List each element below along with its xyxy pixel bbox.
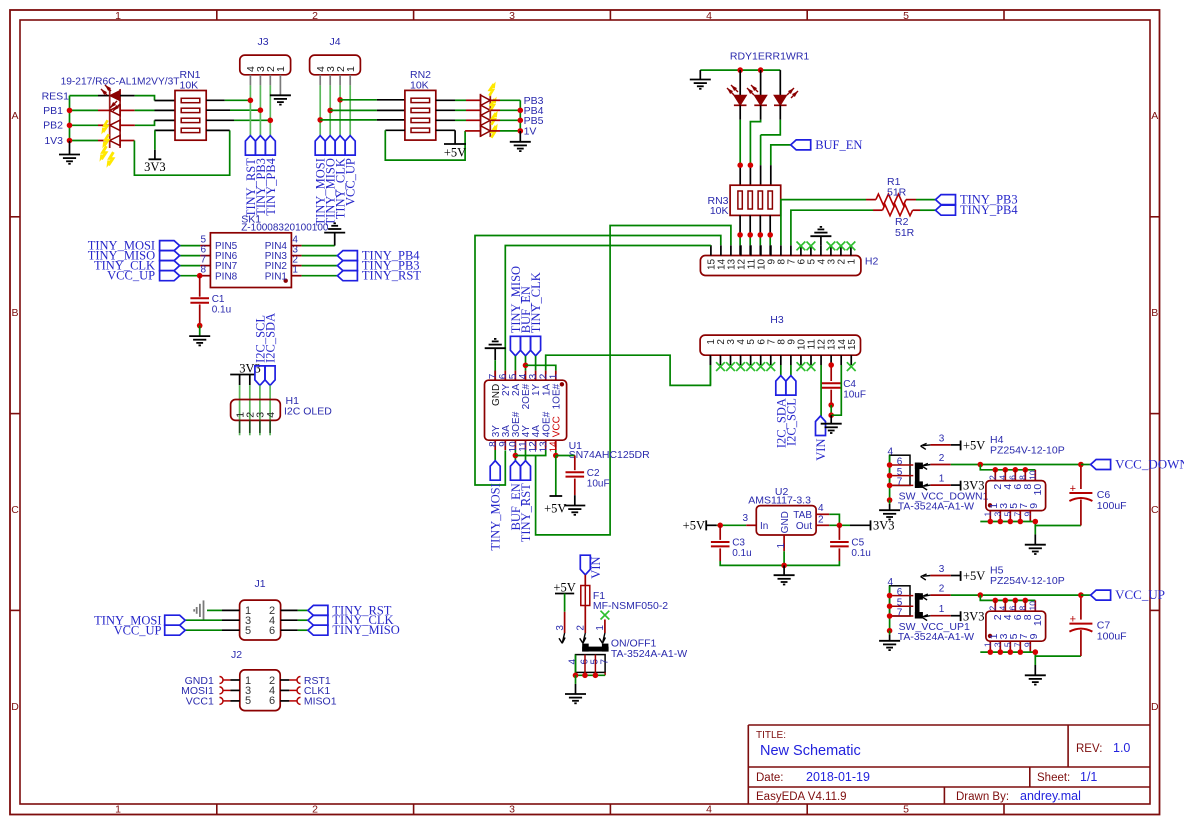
svg-text:10: 10 — [1032, 614, 1044, 626]
svg-text:9: 9 — [1028, 503, 1040, 509]
ground below 1V3 bus — [69, 141, 71, 155]
switch SW_VCC_DOWN1 pin2 wire — [922, 463, 928, 466]
wire RN1 row1 to J3 pin4 — [206, 99, 225, 101]
ground below C4 — [830, 415, 832, 424]
H4 bottom stubs — [989, 511, 991, 522]
H1 flag wires — [259, 385, 261, 420]
svg-text:5: 5 — [245, 695, 251, 707]
net flag BUF_EN above U1 — [521, 336, 531, 356]
svg-text:1: 1 — [982, 512, 992, 517]
power flag +5V below U1 — [555, 456, 557, 497]
svg-text:3V3: 3V3 — [873, 518, 895, 532]
svg-text:VCC_UP: VCC_UP — [344, 158, 358, 206]
svg-text:4: 4 — [706, 10, 712, 22]
svg-text:H3: H3 — [770, 314, 784, 326]
svg-text:andrey.mal: andrey.mal — [1020, 789, 1081, 803]
svg-text:3: 3 — [992, 642, 1002, 647]
net flag TINY_CLK under J4 — [335, 136, 345, 156]
svg-text:19-217/R6C-AL1M2VY/3T: 19-217/R6C-AL1M2VY/3T — [61, 77, 180, 88]
LED array D1 left rail — [109, 89, 111, 148]
LED D2a triangle PB3 — [481, 95, 491, 105]
svg-text:C1: C1 — [212, 294, 225, 305]
ground at U1 pin7 — [494, 348, 496, 360]
svg-text:H2: H2 — [865, 256, 879, 268]
wire RES1 row to LED1 — [70, 95, 99, 97]
svg-text:10K: 10K — [410, 80, 429, 92]
svg-text:1V3: 1V3 — [44, 135, 63, 147]
switch SW_VCC_UP1 body — [890, 586, 910, 616]
wire U1 pin8 to flag — [494, 450, 496, 461]
H3 pin12 wire to VIN — [820, 365, 822, 416]
ground below H5 — [1034, 656, 1036, 665]
svg-text:1: 1 — [345, 66, 357, 72]
row tick marks left/right — [10, 216, 20, 218]
wire J4 pin2 to RN2 row1 — [340, 99, 377, 101]
H3 pin14 wire to ground join — [831, 365, 841, 415]
power flag +5V at RN2 — [454, 130, 456, 144]
junction dots above RN3 — [737, 162, 743, 168]
svg-text:+5V: +5V — [444, 146, 466, 160]
svg-text:3: 3 — [992, 512, 1002, 517]
net flag TINY_CLK at SK1 — [160, 261, 180, 271]
svg-text:5: 5 — [1002, 512, 1012, 517]
svg-text:51R: 51R — [887, 187, 907, 199]
svg-text:1V: 1V — [524, 126, 537, 138]
svg-text:4: 4 — [706, 804, 712, 816]
U1 bottom pin stubs — [494, 440, 496, 450]
svg-text:8: 8 — [1017, 606, 1027, 611]
svg-text:5: 5 — [903, 10, 909, 22]
switch SW_VCC_DOWN1 left rail to ground — [889, 455, 891, 500]
H3 X marks — [716, 362, 725, 371]
svg-text:2: 2 — [312, 10, 318, 22]
title block outline — [748, 725, 1150, 804]
svg-text:1: 1 — [115, 804, 121, 816]
U1 top pin stubs — [494, 371, 496, 381]
switch SW_VCC_UP1 pin1 3V3 — [922, 615, 928, 618]
svg-text:100uF: 100uF — [1097, 500, 1127, 512]
resistor R1 — [876, 194, 906, 205]
svg-text:10: 10 — [1032, 484, 1044, 496]
svg-text:0.1u: 0.1u — [732, 548, 751, 559]
junction dots below RN3 — [737, 232, 743, 238]
wire R2 to flag — [913, 209, 920, 211]
header H5 top stubs — [994, 600, 996, 611]
switch ON/OFF1 body — [576, 655, 606, 673]
svg-text:RES1: RES1 — [42, 90, 70, 102]
J1 right wires — [281, 609, 298, 611]
svg-text:1: 1 — [939, 604, 945, 615]
svg-text:B: B — [1151, 307, 1158, 319]
wire U1 pin4 TINY_CLK with dot — [525, 356, 527, 371]
svg-text:2: 2 — [818, 515, 824, 526]
ground below ON/OFF1 — [575, 675, 577, 684]
svg-text:10uF: 10uF — [843, 390, 866, 401]
wire U1 pin4 tie to pin1 — [526, 365, 556, 370]
svg-text:VCC: VCC — [551, 416, 562, 437]
switch SW_VCC_UP1 pin3 +5V — [921, 574, 927, 577]
LED LED3 WR — [779, 70, 781, 95]
header H4 top stubs — [994, 470, 996, 481]
net flag TINY_CLK above U1 — [531, 336, 541, 356]
wire 1V3 row to LED4 — [70, 140, 99, 142]
svg-text:D: D — [1151, 701, 1159, 713]
LED D1c triangle PB2 — [110, 120, 120, 130]
U2 pin1 GND wire — [783, 535, 785, 551]
net flag TINY_PB4 — [337, 251, 357, 261]
svg-text:VCC_UP: VCC_UP — [114, 624, 162, 638]
header H4 top rail — [980, 464, 1081, 466]
svg-text:Out: Out — [796, 521, 812, 532]
wire H2 pin8 up to R1 — [781, 200, 866, 246]
svg-text:B: B — [11, 307, 18, 319]
svg-text:RDY1ERR1WR1: RDY1ERR1WR1 — [730, 51, 810, 63]
wire RN1 row2 to J3 pin3 — [206, 109, 230, 111]
net flag TINY_PB4 under J3 — [265, 136, 275, 156]
net flag VCC_UP at SK1 — [160, 271, 180, 281]
wire RN2 row1 to LED2 array — [436, 99, 455, 101]
svg-text:3: 3 — [742, 513, 748, 524]
wire LED3 to RN1 jog — [120, 124, 135, 126]
H2 pin stubs — [710, 245, 712, 255]
net flag I2C_SDA at H3 — [776, 376, 786, 396]
H3 pin8 flag wire — [780, 365, 782, 376]
ground below H4 — [1034, 526, 1036, 535]
net flag TINY_MOSI at SK1 — [160, 241, 180, 251]
svg-text:GND: GND — [780, 511, 791, 533]
svg-text:4: 4 — [818, 503, 824, 514]
wire PB2 row to LED3 — [70, 124, 99, 126]
net flag TINY_PB3 — [337, 261, 357, 271]
svg-text:A: A — [11, 110, 18, 122]
net flag TINY_MISO above U1 — [510, 336, 520, 356]
capacitor C5 — [838, 525, 840, 540]
svg-text:TITLE:: TITLE: — [756, 730, 786, 741]
svg-text:TA-3524A-A1-W: TA-3524A-A1-W — [898, 501, 974, 513]
SK1 left pin wires — [180, 245, 201, 247]
SK1 right wires to flags — [291, 255, 301, 257]
svg-text:4: 4 — [265, 412, 277, 418]
svg-text:1: 1 — [982, 642, 992, 647]
svg-text:8: 8 — [1017, 475, 1027, 480]
net flag TINY_RST under J3 — [245, 136, 255, 156]
wire U1 pin2 to H3 pin1 — [546, 355, 711, 385]
svg-text:5: 5 — [903, 804, 909, 816]
svg-text:1OE#: 1OE# — [551, 383, 562, 409]
ground below U2 — [783, 565, 785, 575]
svg-text:A: A — [1151, 110, 1158, 122]
U1 pin1 marker — [560, 382, 564, 386]
svg-text:J4: J4 — [329, 36, 340, 48]
junction dots PB4 PB5 1V — [518, 108, 524, 114]
net flag I2C_SCL at H1 — [255, 366, 265, 386]
svg-text:C3: C3 — [732, 538, 745, 549]
U2 pin4 TAB wire — [816, 513, 829, 515]
svg-text:4: 4 — [997, 606, 1007, 611]
power flag 3V3 at RN1 — [154, 130, 156, 149]
svg-text:D: D — [11, 701, 19, 713]
J3 junction dots — [248, 98, 254, 104]
svg-text:1: 1 — [939, 474, 945, 485]
svg-text:3: 3 — [939, 564, 945, 575]
svg-text:4: 4 — [997, 475, 1007, 480]
svg-text:PIN8: PIN8 — [215, 271, 238, 282]
svg-text:REV:: REV: — [1076, 743, 1102, 755]
resistor network RN3 box — [730, 185, 781, 215]
svg-text:5: 5 — [245, 625, 251, 637]
capacitor C7 — [1080, 595, 1082, 620]
svg-text:TINY_RST: TINY_RST — [519, 483, 533, 542]
svg-text:1: 1 — [776, 543, 787, 549]
svg-text:4: 4 — [888, 577, 894, 588]
J3 pin2 wire — [269, 75, 271, 86]
svg-text:2: 2 — [939, 453, 945, 464]
net flag TINY_MISO under J4 — [325, 136, 335, 156]
LED array D1 right rail — [119, 89, 121, 148]
switch ON/OFF1 actuator bar — [582, 647, 608, 652]
wire H2 pin7 up to R2 — [791, 210, 873, 245]
ground below 1V — [519, 131, 521, 142]
svg-text:PB1: PB1 — [43, 105, 63, 117]
wire RN2 row2 to LED2 array — [436, 109, 455, 111]
net flag TINY_PB4 right — [936, 205, 956, 215]
right vertical bus PB3-1V — [519, 100, 521, 131]
svg-text:4: 4 — [567, 659, 578, 665]
svg-text:TINY_PB4: TINY_PB4 — [960, 203, 1018, 217]
svg-text:1/1: 1/1 — [1080, 770, 1097, 784]
svg-text:0.1u: 0.1u — [212, 305, 231, 316]
svg-text:Z-10008320100100: Z-10008320100100 — [241, 223, 329, 234]
wire H2 pin14 long route to U1 pin9 — [475, 236, 721, 486]
SK1 pin4 wire to ground — [291, 245, 301, 247]
IC U1 box — [485, 380, 567, 440]
H4 bottom rail — [980, 521, 1035, 523]
svg-text:SN74AHC125DR: SN74AHC125DR — [569, 449, 651, 461]
RN3 resistors vertical — [738, 191, 742, 209]
switch SW_VCC_UP1 actuator bar — [915, 593, 920, 618]
SK1 pin1 marker dot — [284, 279, 288, 283]
LED D1d triangle 1V3 — [110, 135, 120, 145]
svg-text:TINY_CLK: TINY_CLK — [529, 272, 543, 333]
U2 pin3 stub — [746, 524, 756, 526]
wire J4 pin4 to RN2 row3 — [320, 119, 377, 121]
RN1 resistors — [181, 98, 200, 102]
resistor network RN1 box — [175, 91, 206, 141]
svg-text:+5V: +5V — [544, 502, 566, 516]
J1 pin3 wire to TINY_MOSI — [222, 619, 240, 621]
J3 pin1 wire to ground — [279, 75, 281, 96]
junction dot C5 — [837, 523, 843, 529]
svg-text:7: 7 — [599, 659, 610, 665]
LED D1a filled triangle RES1 — [110, 90, 120, 100]
svg-text:2: 2 — [939, 584, 945, 595]
net flag I2C_SCL at H3 — [786, 376, 796, 396]
capacitor C3 — [719, 525, 721, 540]
wire LED1 to RN3 col1 — [739, 105, 741, 120]
svg-text:EasyEDA V4.11.9: EasyEDA V4.11.9 — [756, 791, 847, 803]
svg-text:MISO1: MISO1 — [304, 696, 337, 708]
svg-text:3: 3 — [939, 434, 945, 445]
switch SW_VCC_UP1 pin2 wire — [922, 594, 928, 597]
svg-text:3: 3 — [555, 625, 566, 631]
svg-text:C2: C2 — [587, 468, 600, 479]
svg-text:Sheet:: Sheet: — [1037, 772, 1070, 784]
resistor R2 — [883, 205, 913, 216]
junction dot U2 ground rail — [781, 563, 787, 569]
net flag VIN at H3 — [816, 416, 826, 436]
svg-text:6: 6 — [269, 625, 275, 637]
net flag TINY_MOSI at J1 — [165, 615, 186, 625]
svg-text:1.0: 1.0 — [1113, 741, 1130, 755]
junction dot 1V3 — [67, 138, 73, 144]
RN2 pin8 to +5V — [436, 129, 455, 131]
wire U1 pin11 to flag — [525, 450, 527, 461]
svg-text:C: C — [1151, 504, 1159, 516]
svg-text:TA-3524A-A1-W: TA-3524A-A1-W — [611, 648, 687, 660]
svg-text:2: 2 — [987, 475, 997, 480]
J3 pin3 wire — [259, 75, 261, 86]
H3 pin1 wire down-left — [709, 365, 711, 385]
wire F1 to switch pin2 — [584, 606, 586, 634]
svg-text:Date:: Date: — [756, 772, 784, 784]
junction dot below C1 — [197, 323, 203, 329]
ground below C1 — [199, 326, 201, 337]
svg-text:15: 15 — [847, 339, 858, 351]
capacitor C1 — [199, 276, 201, 297]
svg-text:AMS1117-3.3: AMS1117-3.3 — [748, 495, 811, 507]
svg-text:1: 1 — [548, 373, 559, 379]
wire LED1 to RN1 jog — [120, 95, 135, 97]
wire R1 to flag — [906, 199, 916, 201]
wire RN1 row3 to J3 pin2 — [206, 119, 234, 121]
svg-text:100uF: 100uF — [1097, 631, 1127, 643]
LED D2d triangle 1V — [481, 126, 491, 136]
svg-text:TINY_MOSI: TINY_MOSI — [489, 483, 503, 550]
wire RN2 row3 to LED2 array — [436, 119, 455, 121]
junction dot PB1 — [67, 108, 73, 114]
wire LED2 to RN3 col2 — [760, 105, 762, 120]
wire H2 pin15 long route to U1 pin6 — [710, 244, 712, 246]
net flag TINY_RST at J1 — [308, 605, 328, 615]
svg-text:3: 3 — [509, 804, 515, 816]
svg-text:2: 2 — [575, 625, 586, 631]
net flag VIN at F1 — [580, 555, 590, 575]
net flag VCC_UP — [1081, 594, 1091, 596]
net flag TINY_RST below U1 — [521, 461, 531, 481]
net flag BUF_EN top right — [771, 145, 791, 165]
resistor network RN2 box — [405, 90, 436, 140]
svg-text:C5: C5 — [851, 538, 864, 549]
svg-text:9: 9 — [1022, 642, 1032, 647]
ground below C2 — [564, 505, 585, 507]
ON/OFF1 bottom rail — [576, 674, 606, 676]
svg-text:9: 9 — [1022, 512, 1032, 517]
svg-text:2018-01-19: 2018-01-19 — [806, 770, 870, 784]
svg-text:TINY_MISO: TINY_MISO — [332, 623, 399, 637]
LED array D2 right rail — [489, 94, 491, 137]
svg-text:J2: J2 — [231, 649, 242, 661]
svg-text:C4: C4 — [843, 379, 856, 390]
net flag VCC_UP at J1 — [165, 625, 186, 635]
svg-text:2: 2 — [312, 804, 318, 816]
svg-text:VCC_UP: VCC_UP — [1115, 587, 1165, 602]
svg-text:Drawn By:: Drawn By: — [956, 791, 1009, 803]
H5 bottom stubs — [989, 641, 991, 652]
wire U1 pin10 BUF_EN — [514, 450, 516, 461]
svg-text:7: 7 — [1012, 512, 1022, 517]
junction dot PB2 — [67, 123, 73, 129]
switch SW_VCC_DOWN1 actuator bar — [915, 463, 920, 488]
svg-text:1: 1 — [275, 66, 287, 72]
svg-text:1: 1 — [115, 10, 121, 22]
wire LED4 loop to RN1 right pin4 — [120, 140, 134, 142]
svg-text:2: 2 — [987, 606, 997, 611]
H1 bottom stubs — [239, 420, 241, 433]
svg-text:TAB: TAB — [793, 510, 812, 521]
LED D1 emission arrows dark red — [105, 85, 111, 91]
net flag TINY_RST — [337, 271, 357, 281]
connector SK1 box — [210, 233, 291, 288]
connector H5 box — [986, 611, 1046, 641]
wire LED2 to RN1 — [120, 109, 135, 111]
svg-text:I2C_SDA: I2C_SDA — [264, 313, 278, 363]
svg-text:VCC1: VCC1 — [186, 696, 214, 708]
svg-text:BUF_EN: BUF_EN — [815, 138, 862, 152]
svg-text:MF-NSMF050-2: MF-NSMF050-2 — [593, 600, 668, 612]
capacitor C2 — [556, 455, 575, 457]
svg-text:7: 7 — [1012, 642, 1022, 647]
svg-text:C: C — [11, 504, 19, 516]
net flag TINY_MOSI under J4 — [315, 136, 325, 156]
svg-text:1: 1 — [847, 258, 858, 264]
ground at RDY left — [699, 70, 701, 79]
net flag BUF_EN below U1 — [510, 461, 520, 481]
svg-text:10: 10 — [1027, 470, 1037, 480]
net flag TINY_MISO at SK1 — [160, 251, 180, 261]
svg-text:5: 5 — [1002, 642, 1012, 647]
IC U2 box — [756, 506, 816, 535]
J4 junction dots — [337, 97, 343, 103]
connector J1 box — [240, 600, 281, 640]
LED LED1 RDY — [739, 70, 741, 95]
switch SW_VCC_DOWN1 pin3 +5V — [921, 443, 927, 446]
LED LED2 ERR — [760, 70, 762, 95]
svg-text:14: 14 — [548, 441, 559, 453]
LED D2b triangle PB4 — [481, 105, 491, 115]
svg-text:TA-3524A-A1-W: TA-3524A-A1-W — [898, 631, 974, 643]
svg-text:6: 6 — [1007, 475, 1017, 480]
svg-text:10uF: 10uF — [587, 478, 610, 489]
svg-text:PB2: PB2 — [43, 120, 63, 132]
fuse F1 — [584, 575, 586, 586]
wire left vertical bus RES1-1V3 — [69, 96, 71, 141]
svg-text:+5V: +5V — [553, 581, 575, 595]
LED D1 yellow bolts — [97, 120, 111, 134]
net flag TINY_MOSI below U1 — [490, 461, 500, 481]
svg-text:3V3: 3V3 — [144, 160, 166, 174]
svg-text:0.1u: 0.1u — [851, 548, 870, 559]
wire U1 pin14 VCC — [555, 450, 557, 456]
switch SW_VCC_DOWN1 pin1 3V3 — [922, 484, 928, 487]
wire LED3 to RN3 col3 — [779, 105, 781, 120]
RN3 bottom wires to H2 — [739, 215, 741, 235]
net flag TINY_MISO at J1 — [308, 625, 328, 635]
wires LED2 array right side — [490, 99, 500, 101]
X mark on switch pin1 — [601, 611, 610, 620]
net flag TINY_PB3 under J3 — [255, 136, 265, 156]
svg-text:VCC_UP: VCC_UP — [107, 269, 155, 283]
svg-text:9: 9 — [1028, 633, 1040, 639]
